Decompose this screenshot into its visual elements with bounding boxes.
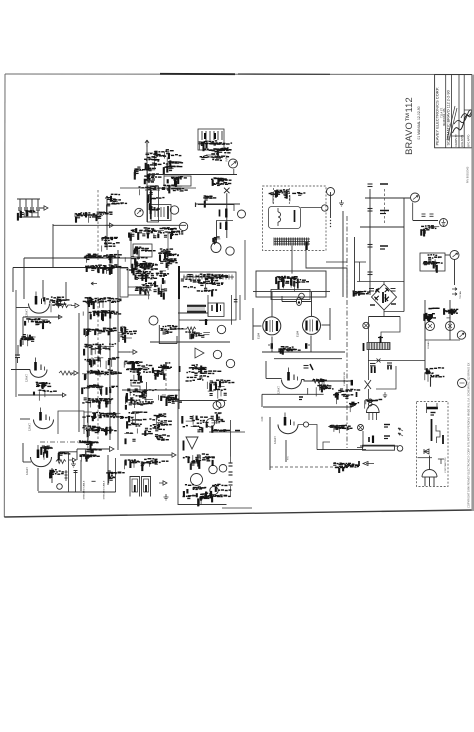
bias lower cluster	[425, 368, 445, 387]
wire vertical x53	[52, 224, 54, 268]
ground at footswitch	[164, 494, 169, 500]
svg-text:BRAVO™112: BRAVO™112	[404, 97, 414, 155]
component labels top right	[106, 194, 127, 212]
wire vertical x52	[51, 468, 53, 483]
wire corner y311	[384, 311, 404, 313]
jack circle x230	[226, 359, 234, 367]
transistor diode network	[135, 262, 158, 282]
coupling cap cluster	[134, 167, 149, 180]
jack circle left edge	[238, 210, 246, 218]
wire vertical x168	[167, 232, 169, 270]
fx corner cluster	[118, 326, 137, 343]
switch label smear	[150, 190, 152, 219]
pot step wires	[131, 382, 147, 391]
mid band fill B	[158, 249, 177, 268]
caps row mid	[159, 251, 179, 261]
plate resistor network V1A	[43, 297, 70, 312]
footswitch diode arrow	[424, 449, 429, 454]
component cluster bottom left strip	[106, 471, 125, 483]
dashed bus line	[97, 190, 99, 262]
wire bus y258	[24, 257, 131, 259]
input network	[200, 148, 232, 160]
power tube top bus	[253, 291, 330, 293]
pot lower cluster	[159, 395, 182, 406]
wire bus y370	[11, 369, 30, 371]
wire vertical x131	[130, 232, 132, 268]
cable cross dashes	[92, 480, 96, 482]
output jack circle	[411, 193, 420, 202]
jack circle x221	[217, 325, 225, 333]
bias transistor network 1	[424, 308, 439, 321]
wire bus y267	[13, 267, 128, 269]
reverb driver components B	[183, 454, 215, 469]
transistor circle right 1	[426, 322, 435, 331]
svg-text:C20: C20	[260, 416, 264, 421]
arrow right of filter	[40, 206, 48, 210]
footswitch LED	[422, 470, 437, 477]
heater caps x370	[368, 183, 373, 185]
svg-text:12AX7: 12AX7	[277, 386, 281, 394]
svg-text:EL84: EL84	[296, 330, 300, 337]
footswitch top contact bar	[427, 407, 438, 410]
wire y220 right	[413, 220, 438, 222]
mid band fill A	[125, 257, 158, 276]
wire bus y204	[196, 203, 240, 205]
mid network D	[207, 380, 234, 399]
wire bus y395	[18, 394, 63, 396]
svg-text:12AX7: 12AX7	[25, 467, 29, 475]
voltage selector inner box	[271, 290, 310, 300]
footswitch label column	[431, 419, 433, 441]
frame right border	[471, 75, 473, 510]
frame top border	[5, 73, 472, 76]
wire vertical x13	[12, 268, 14, 293]
small circle node	[303, 422, 308, 427]
wire vertical x343	[342, 211, 344, 297]
power bus y358	[274, 358, 342, 360]
psu label 120vac	[356, 392, 358, 397]
channel strip component row 10	[82, 426, 116, 437]
transistor circle T1	[327, 188, 335, 196]
feedback loop rectangle	[58, 411, 84, 434]
tall switch internals	[148, 188, 165, 214]
reverb xfmr box	[208, 303, 224, 317]
svg-text:SHIELDED CABLE: SHIELDED CABLE	[83, 480, 86, 499]
bright channel network A	[144, 151, 167, 179]
opto arrows 1	[137, 210, 141, 214]
reverb mid cluster	[191, 460, 200, 470]
reverb transformer coil	[187, 305, 206, 307]
component row y258	[84, 254, 122, 264]
psu bus y360	[368, 360, 425, 362]
svg-text:P/N 80302345: P/N 80302345	[466, 166, 470, 183]
mid network C	[153, 363, 172, 380]
screen resistor V4	[271, 343, 273, 349]
reverb input parts	[185, 332, 210, 339]
channel strip component row 2	[83, 310, 121, 321]
wire V2A left	[20, 418, 30, 420]
supply jack wire	[233, 205, 235, 212]
thermal box	[420, 253, 445, 271]
svg-text:12AX7: 12AX7	[28, 423, 32, 431]
resistor R6 zigzag V1A	[55, 303, 72, 308]
heater labels right	[380, 183, 388, 185]
transformer wires	[269, 191, 306, 203]
wire bus y491	[38, 491, 116, 493]
small left arrow strip	[91, 282, 97, 285]
svg-text:12AX7: 12AX7	[25, 374, 29, 382]
wire tube V5 down	[310, 336, 312, 353]
footswitch jack U 1	[130, 477, 140, 497]
selector labels	[282, 279, 284, 288]
choke right cluster	[380, 336, 382, 343]
output resistor box	[363, 445, 395, 450]
label column x179	[178, 266, 180, 299]
wire box to jack	[445, 254, 450, 256]
scan edge grey band	[472, 75, 474, 511]
svg-text:STANDBY SW: STANDBY SW	[343, 371, 346, 386]
diode X on bus	[377, 359, 381, 363]
wire tube V4 down	[271, 337, 273, 353]
wire jack down	[454, 260, 456, 286]
wire vertical x88	[87, 297, 89, 440]
ground stub psu	[383, 392, 387, 398]
node stub filter	[40, 207, 44, 209]
choke label T2	[363, 343, 365, 351]
cable vertical x75	[75, 471, 77, 492]
bias cluster lower	[333, 389, 360, 404]
bridge side caps	[369, 288, 374, 290]
arrow V1A out2	[55, 315, 62, 319]
zig wire xfmr to box	[292, 245, 347, 297]
wire bus y188	[120, 187, 196, 189]
wire bus y448	[317, 449, 366, 451]
AC plug	[367, 405, 380, 413]
xfmr box bottom wire	[199, 319, 208, 321]
input jack circle	[229, 159, 238, 168]
filter caps A	[370, 363, 376, 365]
wire vertical x18	[17, 345, 19, 356]
power switch S1	[365, 380, 372, 389]
resistor R network top right	[101, 238, 120, 252]
connector dark bar	[305, 242, 307, 250]
lamp circle X	[358, 425, 364, 431]
fan jack circle	[450, 251, 459, 260]
mid network rows	[129, 228, 183, 241]
svg-text:FOOTSWITCH: FOOTSWITCH	[445, 457, 447, 472]
tone stack labels	[198, 141, 232, 151]
grid stopper cluster	[144, 174, 161, 184]
wire vertical x43	[42, 280, 44, 299]
capacitor C input	[15, 354, 20, 356]
psu left vertical	[368, 317, 370, 343]
power transformer dashed box	[263, 186, 327, 251]
coupling caps row	[328, 425, 352, 433]
channel strip component row 5	[84, 357, 119, 369]
wire right mid	[425, 339, 460, 341]
dark bar R reverb	[205, 319, 207, 325]
wire tube out path	[298, 425, 330, 450]
fx loop network	[160, 326, 183, 334]
channel strip component row 4	[84, 344, 116, 356]
caps row right	[422, 213, 426, 215]
tube V1B 12AX7	[30, 370, 47, 378]
wire xfmr top	[301, 207, 322, 209]
capacitor filter labels	[18, 211, 38, 221]
power tube side wires	[253, 325, 262, 327]
wire V1A left	[16, 307, 29, 309]
bottom left rows wire	[128, 286, 152, 288]
svg-text:R C: R C	[288, 456, 290, 460]
footswitch label C41	[431, 412, 436, 414]
wire bus y198	[365, 197, 410, 199]
wire V2B left	[23, 461, 31, 463]
svg-text:EL84: EL84	[257, 332, 261, 339]
wire vertical x66	[65, 282, 67, 300]
R60 dark bar	[372, 436, 374, 444]
tone stack internals	[201, 131, 203, 140]
wire vertical x450	[449, 300, 451, 340]
capacitor filter bank elements	[19, 199, 21, 207]
label C35	[384, 424, 390, 426]
bright channel network B	[163, 150, 183, 175]
wire vertical x16 long	[15, 290, 17, 397]
wire vertical x77	[76, 449, 78, 460]
resistor row y432	[209, 431, 245, 433]
bridge top bus	[357, 281, 404, 283]
wire vertical x24	[23, 258, 25, 299]
wire bus y262 right	[355, 261, 367, 263]
pull resistor cluster	[211, 178, 232, 186]
reverb box internals	[181, 274, 228, 296]
jack circle rd3	[210, 486, 218, 494]
rectifier filter box	[256, 271, 326, 297]
ground symbol near V2B	[71, 461, 76, 467]
V3A left wire	[265, 361, 267, 379]
screen bus y352	[262, 351, 345, 353]
inner relay box	[151, 205, 171, 221]
arrow at footswitch	[159, 481, 167, 485]
opamp triangle 1	[195, 348, 204, 358]
arrow out V1B	[70, 371, 78, 375]
footswitch jack U 2	[142, 477, 151, 497]
title block signature squiggle 3	[461, 104, 474, 118]
pot cluster row B	[125, 380, 156, 409]
bus end cluster	[349, 402, 359, 412]
wire bus y449	[77, 448, 109, 450]
resistor near jack	[214, 156, 223, 159]
frame top border smudge	[160, 73, 235, 75]
bias transistor network 2	[444, 308, 458, 318]
tall switch rectangle	[148, 186, 159, 222]
rectifier labels A	[276, 276, 294, 289]
reverb pan circle	[191, 474, 203, 486]
jack circle mid2	[226, 247, 234, 255]
arrow up x105 strip	[104, 236, 108, 244]
fx loop box wire	[159, 325, 177, 344]
output jack arrow	[413, 196, 418, 200]
wire vertical x147	[146, 140, 148, 222]
plug labels	[365, 400, 383, 409]
component row y452	[85, 449, 102, 459]
tube V2A 12AX7	[34, 420, 54, 429]
wire jack to bus	[233, 169, 235, 175]
reverb board bottom seg	[222, 507, 252, 509]
zig resistor reverb	[187, 327, 196, 331]
footswitch stepped wire	[436, 425, 440, 443]
supply bottom label	[213, 237, 220, 245]
opamp triangle 2	[186, 437, 198, 449]
title block divider 1	[445, 75, 447, 148]
wire vertical x363	[362, 431, 364, 448]
jack circle rd2	[209, 465, 217, 473]
footswitch internal wires	[429, 456, 431, 470]
circle ground right	[440, 219, 448, 227]
reverb driver box	[178, 401, 227, 505]
pot labels row 1	[75, 212, 113, 223]
wire y451 left	[60, 451, 77, 453]
wire vertical x370	[369, 189, 371, 295]
arrow out V2B	[69, 458, 76, 462]
jack circle rd0	[213, 401, 221, 409]
frame left border	[3, 74, 6, 517]
wire bus y407	[263, 406, 352, 408]
supply resistor bar 2	[225, 222, 227, 231]
transistor circle right 2	[446, 322, 455, 331]
V3A out bus y381	[302, 380, 353, 382]
supply wire y204	[198, 204, 234, 206]
wire vertical x425	[424, 300, 426, 370]
wire vertical x354	[354, 237, 356, 292]
reverb board right edge	[230, 420, 232, 457]
frame bottom border	[4, 510, 472, 517]
screen resistor V5	[305, 343, 307, 349]
arrow out V1A	[71, 303, 79, 307]
out network V2B	[58, 452, 70, 460]
cathode network V1B	[34, 382, 57, 401]
channel strip component row 9	[82, 412, 123, 423]
heater tick y273	[368, 271, 373, 273]
choke transformer T2	[367, 343, 390, 350]
capacitor filter bank rail	[17, 198, 40, 200]
reverb box hatch row	[183, 276, 234, 278]
footswitch SW label	[442, 435, 444, 444]
jack circle right low	[458, 379, 467, 388]
tube V5 EL84	[303, 316, 321, 334]
channel strip component row 8	[82, 398, 113, 409]
row y467 components	[333, 463, 359, 473]
V2B zigzag	[56, 460, 66, 464]
bridge bottom vertical	[383, 310, 385, 317]
wire bus y227	[360, 226, 404, 228]
wire stub y190	[145, 189, 160, 191]
label R61	[384, 435, 390, 437]
title block signature squiggle 1	[453, 111, 473, 133]
pot bus y390	[122, 389, 180, 391]
fx loop arrow	[118, 351, 130, 353]
reverb drive network	[186, 365, 222, 381]
wire vertical x179	[178, 297, 180, 409]
plate network V2B	[41, 446, 53, 460]
opto circle 2	[170, 206, 178, 214]
reverb xfmr box bars	[216, 304, 218, 313]
rectifier labels B	[291, 277, 309, 292]
filter caps B	[387, 362, 392, 364]
reverb parts A	[230, 295, 232, 325]
wire vertical x384 dashed	[384, 189, 386, 225]
pot cluster row A	[124, 361, 154, 382]
tall rect footswitch conn	[120, 268, 128, 297]
wire vertical x216	[216, 220, 218, 243]
diode bridge diodes	[374, 288, 389, 301]
jack circle x217	[213, 350, 221, 358]
to fan arrows	[452, 288, 457, 296]
pot box right low	[115, 458, 117, 492]
jack circle rd1	[206, 419, 214, 427]
lamp circle	[57, 484, 63, 490]
component row y267	[85, 265, 121, 275]
jack circle mid	[211, 243, 221, 253]
footswitch wire y457	[418, 457, 433, 459]
wire vertical x359	[359, 262, 361, 282]
transformer secondary winding	[274, 238, 310, 240]
svg-text:R BIAS: R BIAS	[427, 341, 430, 349]
svg-text:12AX7: 12AX7	[273, 436, 277, 444]
title block divider 4	[463, 75, 465, 148]
input jack arrow	[231, 162, 236, 166]
footswitch dashed box	[417, 402, 449, 487]
footswitch top wire	[427, 403, 438, 413]
reverb parts B	[234, 299, 238, 301]
wire vertical x38	[37, 468, 39, 491]
svg-text:01 MANUAL 12-02-90: 01 MANUAL 12-02-90	[417, 106, 421, 139]
wire bus y394	[262, 393, 308, 395]
jack circle rd4	[219, 465, 227, 473]
labels under caps right	[421, 226, 439, 237]
dash vertical x166	[165, 363, 167, 390]
arrow bus y455	[168, 453, 176, 457]
dashed vertical x98b	[97, 297, 99, 440]
arrow up x107	[105, 196, 109, 203]
component row y458	[80, 455, 100, 462]
phase inverter network	[313, 379, 333, 396]
mid lower cluster	[135, 270, 169, 300]
transformer top dashed leads	[272, 188, 274, 204]
svg-text:12AX7: 12AX7	[25, 309, 29, 317]
output circle small	[397, 446, 403, 452]
plug circle xfmr right	[322, 205, 328, 211]
arrow on bus y224	[106, 223, 114, 227]
zigzag resistor low	[142, 289, 152, 293]
wire vertical x270	[269, 417, 271, 470]
opto circle 1	[135, 208, 143, 216]
thermal box labels	[423, 255, 443, 273]
wire vertical x23c	[22, 443, 24, 462]
dashed bus y467	[270, 466, 360, 468]
title block outline	[435, 75, 472, 148]
psu step wire	[381, 317, 400, 343]
tube V1A 12AX7	[29, 304, 50, 314]
diode bridge diamond	[372, 284, 397, 310]
wire V1A grid	[23, 316, 60, 318]
arrow on y395	[59, 393, 66, 397]
switch box	[164, 176, 191, 186]
wire left edge x245	[244, 240, 246, 300]
bridge side labels	[370, 304, 375, 306]
label C31	[179, 366, 181, 372]
wire bus y173	[150, 174, 237, 176]
triangle label bars	[183, 441, 185, 451]
